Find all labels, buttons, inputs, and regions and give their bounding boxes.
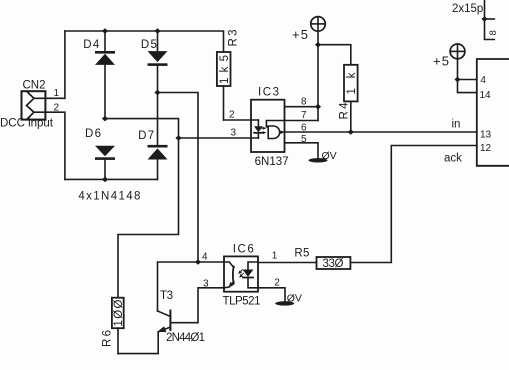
ground 0V (IC6) <box>275 301 294 305</box>
svg-text:3: 3 <box>231 128 237 139</box>
resistor R4 <box>318 45 358 132</box>
wire TLP pin3 to T3 base <box>170 288 224 323</box>
IC3 internal LED <box>254 120 263 138</box>
wire IC3 pin3 <box>179 137 259 139</box>
svg-text:R4: R4 <box>339 102 351 120</box>
svg-text:8: 8 <box>301 97 307 108</box>
ground 0V (IC3) <box>309 158 328 162</box>
IC6 LED light arrows <box>238 270 243 278</box>
node R4 / pin6 wire <box>348 129 354 135</box>
svg-text:2N44Ø1: 2N44Ø1 <box>166 332 205 344</box>
IC6 internal LED <box>243 262 259 288</box>
svg-text:7: 7 <box>301 110 307 121</box>
wire TLP pin4 <box>158 262 225 311</box>
wire +5 down to pin7 <box>317 31 319 120</box>
wire +5 to pins 4 and 14 <box>458 59 477 93</box>
wire IC3 pin5 to ground <box>285 143 319 159</box>
svg-text:2x15p: 2x15p <box>452 3 483 15</box>
wire ack from pin12 to R5 <box>350 146 476 263</box>
svg-text:12: 12 <box>480 143 492 154</box>
transistor T3 2N4401 <box>118 311 170 354</box>
node bottom rail / D6 <box>102 177 108 183</box>
diode D5 <box>148 31 168 145</box>
optocoupler IC6 TLP521 <box>224 256 258 291</box>
svg-text:ack: ack <box>444 153 462 165</box>
node top rail / D5 <box>154 28 160 34</box>
wire IC3 pin7 <box>285 120 319 122</box>
svg-text:CN2: CN2 <box>23 80 46 92</box>
node mid-right DC plus <box>154 90 160 96</box>
svg-text:1k5: 1k5 <box>219 55 231 84</box>
svg-text:D5: D5 <box>141 39 157 51</box>
wire bottom rail <box>65 178 158 180</box>
right box connector/IC <box>477 59 509 166</box>
svg-text:6N137: 6N137 <box>255 156 289 168</box>
svg-text:R3: R3 <box>228 30 240 47</box>
power +5 supply (IC3) <box>311 17 326 32</box>
wire CN2 pin1 to left rail <box>34 31 65 98</box>
svg-text:R6: R6 <box>102 330 114 347</box>
svg-text:4: 4 <box>480 75 486 86</box>
resistor R5 <box>317 257 351 269</box>
svg-text:D6: D6 <box>85 128 101 140</box>
svg-text:1: 1 <box>272 251 278 262</box>
svg-text:1ØØ: 1ØØ <box>113 299 125 326</box>
op-amp IC3 optocoupler 6N137 <box>251 100 285 152</box>
wire IC3 pin6 output to right box pin13 <box>282 131 476 133</box>
node top rail / D4 <box>102 28 108 34</box>
node pin3 branch <box>175 135 181 141</box>
node +5 / pin8 <box>315 104 321 110</box>
wire mid-left to vertical x178.5 <box>105 119 179 298</box>
svg-text:33Ø: 33Ø <box>323 258 344 270</box>
svg-text:2: 2 <box>229 110 235 121</box>
svg-text:1k: 1k <box>346 72 358 94</box>
resistor R6 <box>112 298 124 354</box>
wire TLP pin2 to ground <box>258 288 285 302</box>
svg-text:ØV: ØV <box>287 293 302 305</box>
connector CN2 <box>22 91 46 119</box>
diode D4 <box>95 31 115 119</box>
wire top rail <box>65 31 224 52</box>
node 2x15p <box>481 16 487 22</box>
node TLP pin4 <box>195 259 201 265</box>
IC3 internal pin7 enable trace <box>266 121 284 127</box>
IC3 internal gate <box>268 126 282 139</box>
svg-text:T3: T3 <box>160 290 173 302</box>
wire CN2 pin2 down to bottom rail <box>34 112 65 179</box>
IC3 LED light arrows <box>261 127 267 134</box>
wire R3 to IC3 pin2 <box>224 119 259 121</box>
svg-text:14: 14 <box>480 90 492 101</box>
diode D7 <box>148 145 168 180</box>
svg-text:DCC input: DCC input <box>0 118 54 130</box>
svg-text:8: 8 <box>488 30 499 35</box>
svg-text:IC3: IC3 <box>258 87 279 99</box>
svg-text:D7: D7 <box>138 130 154 142</box>
wire TLP pin1 to R5 <box>258 262 317 264</box>
node +5 / R4 branch <box>315 42 321 48</box>
svg-text:ØV: ØV <box>322 150 337 162</box>
svg-text:R5: R5 <box>294 248 309 260</box>
svg-text:4: 4 <box>202 252 208 263</box>
IC6 internal phototransistor <box>224 262 234 288</box>
diode D6 <box>95 146 115 180</box>
node +5 right <box>454 77 460 83</box>
node mid-left DC minus <box>102 116 108 122</box>
svg-text:D4: D4 <box>83 39 100 51</box>
resistor R3 <box>217 52 231 120</box>
wire mid-right to TLP pin4 <box>158 93 199 263</box>
svg-text:2: 2 <box>274 278 280 289</box>
svg-text:+5: +5 <box>292 27 308 42</box>
crystal stub top right <box>485 0 495 40</box>
wire to pin 4 <box>458 79 477 81</box>
svg-text:+5: +5 <box>433 54 449 69</box>
svg-text:1: 1 <box>54 88 60 99</box>
svg-text:TLP521: TLP521 <box>223 296 261 308</box>
wire IC3 pin8 <box>285 106 319 108</box>
svg-text:in: in <box>452 119 461 131</box>
power +5 supply (right) <box>450 44 465 59</box>
svg-text:4x1N4148: 4x1N4148 <box>78 191 140 203</box>
svg-text:IC6: IC6 <box>233 244 254 256</box>
svg-text:13: 13 <box>480 130 492 141</box>
